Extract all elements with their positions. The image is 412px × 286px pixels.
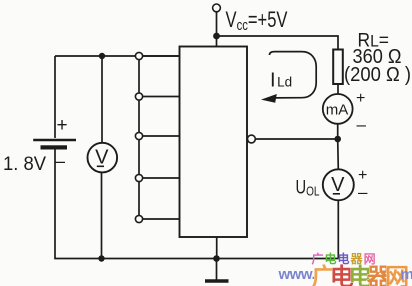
node junction dot (voltmeter bottom) bbox=[98, 255, 104, 261]
svg-text:–: – bbox=[358, 183, 368, 202]
svg-text:+: + bbox=[356, 90, 365, 107]
input pin circle 4 bbox=[135, 174, 142, 181]
ammeter mA bbox=[323, 94, 353, 124]
wire mA meter to node bbox=[337, 124, 339, 139]
svg-text:–: – bbox=[55, 151, 65, 171]
voltmeter V1 bbox=[88, 143, 118, 173]
voltmeter UOL bbox=[323, 169, 354, 200]
wire resistor to mA meter bbox=[337, 84, 339, 94]
wire top-left horizontal bbox=[55, 55, 180, 57]
svg-text:(200 Ω ): (200 Ω ) bbox=[344, 64, 411, 86]
wire Vcc rail to resistor bbox=[217, 36, 339, 50]
svg-text:V: V bbox=[95, 147, 109, 169]
svg-text:Vcc=+5V: Vcc=+5V bbox=[226, 7, 288, 34]
ground bar bbox=[205, 279, 229, 283]
wire input pin 3 bbox=[143, 135, 181, 137]
wire input pin 1 bbox=[143, 55, 181, 57]
battery BT1 plates bbox=[33, 140, 76, 150]
wire bottom rail bbox=[54, 258, 338, 260]
wire node to UOL meter bbox=[337, 139, 340, 169]
output pin circle bbox=[248, 135, 256, 143]
wire ground stem bbox=[216, 259, 218, 280]
Vcc terminal circle bbox=[213, 4, 221, 12]
node junction dot (output/meter) bbox=[334, 136, 341, 143]
svg-text:V: V bbox=[331, 174, 345, 196]
input pin circle 3 bbox=[135, 132, 142, 139]
load current arrowhead bbox=[261, 94, 277, 103]
svg-text:www.: www. bbox=[278, 266, 316, 283]
wire UOL meter to bottom rail bbox=[337, 200, 339, 258]
wire input bus vertical bbox=[138, 56, 140, 219]
wire IC bottom to ground node bbox=[216, 237, 218, 259]
wire left vertical bottom (battery - lead) bbox=[54, 149, 56, 259]
svg-text:广电电器网: 广电电器网 bbox=[312, 263, 409, 286]
svg-text:–: – bbox=[357, 115, 367, 134]
wire input pin 5 bbox=[143, 218, 181, 220]
input pin circle 2 bbox=[135, 93, 142, 100]
wire left vertical top (battery + lead) bbox=[54, 56, 56, 138]
input pin circle 5 bbox=[135, 215, 142, 222]
wire voltmeter top branch bbox=[101, 56, 103, 144]
node junction dot (Vcc rail) bbox=[213, 33, 220, 40]
wire voltmeter bottom branch bbox=[101, 172, 103, 259]
wire input pin 2 bbox=[143, 96, 181, 98]
IC U1 body bbox=[180, 47, 248, 238]
svg-text:mA: mA bbox=[326, 102, 349, 119]
wire input pin 4 bbox=[143, 177, 181, 179]
node junction dot (voltmeter top) bbox=[99, 53, 105, 59]
load current arrow ILd bbox=[270, 52, 317, 98]
node junction dot (ground) bbox=[213, 255, 220, 262]
wire Vcc terminal to IC top bbox=[216, 12, 218, 47]
resistor RL body bbox=[333, 50, 343, 85]
wire output pin to node bbox=[255, 138, 337, 140]
svg-text:1. 8V: 1. 8V bbox=[3, 154, 46, 175]
svg-text:m: m bbox=[401, 266, 412, 283]
input pin circle 1 bbox=[135, 52, 142, 59]
svg-text:+: + bbox=[358, 167, 367, 184]
svg-text:+: + bbox=[57, 115, 68, 136]
